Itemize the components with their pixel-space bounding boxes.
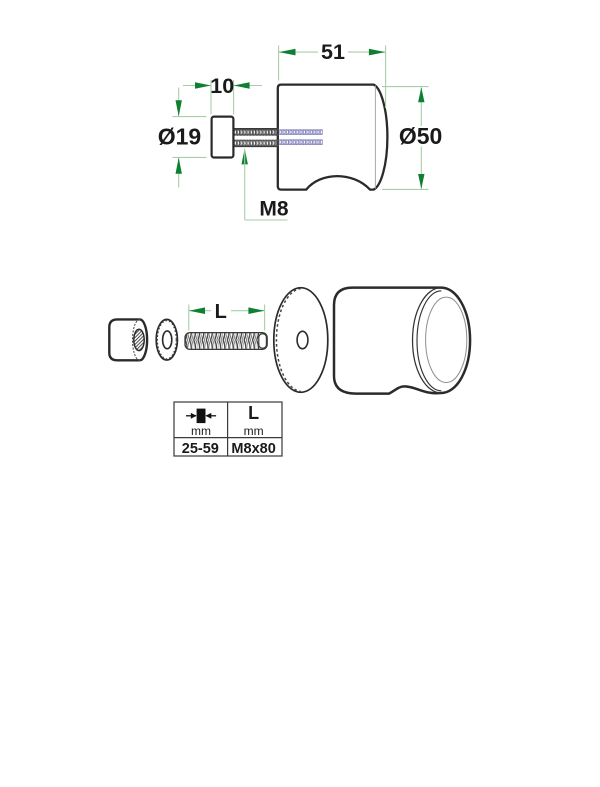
spacer nut [109, 319, 147, 360]
washer (exploded) [156, 319, 177, 360]
dimension L [189, 301, 265, 331]
dimension 51 [279, 40, 386, 108]
knob body side view [278, 85, 388, 190]
svg-text:25-59: 25-59 [182, 441, 219, 457]
dimension 10 [183, 74, 262, 115]
svg-text:mm: mm [191, 424, 211, 438]
svg-text:L: L [215, 301, 227, 323]
svg-text:L: L [248, 403, 259, 423]
svg-text:M8x80: M8x80 [231, 441, 275, 457]
clamp disc [274, 288, 328, 393]
svg-text:M8: M8 [259, 198, 288, 221]
hidden thread lines in body [279, 129, 323, 135]
bolt (exploded) [185, 333, 267, 350]
svg-text:Ø19: Ø19 [158, 123, 201, 149]
svg-text:Ø50: Ø50 [399, 123, 442, 149]
svg-text:10: 10 [210, 74, 234, 98]
spec table grid [174, 402, 282, 456]
body face edge line [374, 86, 376, 189]
svg-text:51: 51 [321, 40, 345, 64]
label M8 leader [242, 148, 289, 220]
threaded rod M8 side view [233, 128, 278, 147]
svg-text:mm: mm [244, 424, 264, 438]
dimension Ø50 [382, 87, 442, 190]
washer Ø19x10 [212, 117, 234, 158]
thickness icon [186, 409, 216, 424]
knob (exploded) [334, 288, 470, 394]
dimension Ø19 [158, 88, 207, 188]
